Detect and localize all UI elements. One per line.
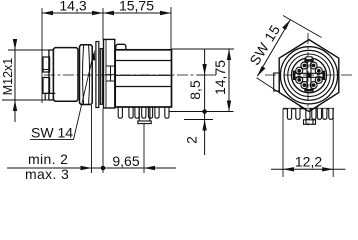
extension line thread bottom (2, 99, 51, 101)
contact pin 2 (310, 62, 317, 69)
mounting plate front view (283, 108, 334, 110)
arrow 14,75 bottom (227, 101, 231, 112)
dimension line M12x1 (14, 44, 16, 122)
arrow below M12 thread (13, 100, 17, 111)
svg-text:2: 2 (184, 136, 200, 144)
arrow 2 bottom (202, 120, 206, 131)
svg-text:min. 2: min. 2 (28, 151, 68, 167)
extension line pin center (143, 124, 145, 173)
solder pin 3 side view (135, 107, 139, 118)
front pin 1 (287, 109, 291, 120)
horizontal centerline front view (265, 74, 352, 76)
svg-text:9,65: 9,65 (112, 153, 139, 169)
hex nut SW14 (80, 45, 93, 105)
front pin 5 (317, 109, 321, 120)
front pin 2 (296, 109, 300, 120)
extension line pin tips (184, 119, 213, 121)
body inner line 2 (115, 74, 171, 76)
hex nut right chamfer arc (89, 45, 90, 104)
svg-text:12,2: 12,2 (295, 154, 322, 170)
extension line seating plane (169, 111, 234, 113)
coding keyway notch (306, 57, 312, 61)
svg-text:SW 14: SW 14 (31, 125, 73, 141)
extension line at x=171 (170, 7, 172, 50)
shield tail foot side view (138, 121, 151, 124)
leader line SW 14 (74, 54, 94, 140)
front contact block upper inner line (43, 69, 50, 71)
panel plate (96, 42, 99, 108)
arrow left of 15,75 (103, 11, 114, 15)
body inner line 3 (115, 86, 171, 88)
hex flat extension lower (257, 78, 280, 93)
outer shell circle (280, 47, 337, 104)
hex bottom vertex over pins (300, 106, 319, 112)
extension line nut rear face (91, 105, 93, 173)
leader arrow SW 14 (92, 50, 95, 61)
middle circle (288, 54, 331, 97)
arrow 12,2 right (322, 167, 333, 171)
svg-text:max. 3: max. 3 (25, 166, 69, 180)
solder pin 5 side view (148, 107, 152, 118)
arrow 9,65 right (144, 166, 155, 170)
anti-rotation tab front view (274, 73, 280, 91)
dimension line 14,75 (228, 49, 230, 112)
contact pin 1 (315, 67, 322, 74)
solder pin 4 side view (142, 107, 146, 118)
dot 8,5 bottom (202, 109, 207, 114)
label SW 14 underline (30, 139, 74, 141)
extension line plate right (332, 109, 334, 177)
centerline left view (44, 74, 216, 76)
dimension line min/max + 9,65 (7, 167, 176, 169)
mounting flange side view (104, 39, 115, 108)
solder pin 1 side view (118, 107, 122, 118)
arrow SW15 lower (257, 66, 265, 76)
contact pin 7 (310, 82, 317, 89)
arrow right of 14,3 (92, 11, 103, 15)
svg-text:8,5: 8,5 (187, 80, 203, 100)
extension line at x=42 (41, 8, 43, 103)
contact pin 8 (315, 76, 322, 83)
extension line body top to 14,75 (172, 48, 234, 50)
shell step circle (284, 50, 334, 100)
arrow 14,75 top (227, 49, 231, 60)
arrow right of 15,75 (160, 11, 171, 15)
contact pin 4 (296, 67, 303, 74)
body top tab (116, 44, 126, 50)
extension line thread top (8, 49, 49, 51)
contact pin 5 (296, 76, 303, 83)
front contact block upper (43, 57, 50, 72)
flange front face inner line (105, 39, 107, 108)
X shield cross (295, 61, 324, 90)
arrow 12,2 left (283, 167, 294, 171)
hex flat extension upper (283, 16, 322, 38)
front contact block lower (43, 78, 50, 94)
dot shared origin (101, 166, 106, 171)
extension line plate left (282, 109, 284, 177)
arrow 8,5 top (202, 64, 206, 75)
svg-text:M12x1: M12x1 (1, 58, 15, 96)
body block (115, 50, 171, 107)
coupling cylinder (53, 48, 78, 102)
hexagon SW15 front view (279, 40, 339, 112)
vertical centerline front view (307, 33, 309, 127)
collar front tube (49, 50, 54, 100)
solder pin 6 side view (155, 107, 159, 118)
contact pin 3 (301, 62, 308, 69)
solder pin 2 side view (129, 107, 133, 118)
svg-text:15,75: 15,75 (119, 0, 154, 14)
collar bottom step (45, 93, 55, 100)
front pin 4 (312, 109, 316, 120)
shield tail side view (139, 107, 150, 121)
flange latch detail (107, 66, 116, 81)
arrow left of 14,3 (42, 11, 53, 15)
arrow panel left (81, 166, 92, 170)
dimension line SW 15 (257, 20, 290, 77)
insert face circle (292, 58, 327, 93)
dimension line 14,3 / 15,75 (42, 12, 171, 14)
svg-text:14,75: 14,75 (212, 60, 228, 95)
hex nut left chamfer arc (83, 45, 84, 104)
contact pin 6 (301, 82, 308, 89)
arrow SW15 upper (282, 20, 290, 30)
front pin 6 (323, 109, 327, 120)
body inner line 1 (115, 60, 171, 62)
front pin 3 (306, 109, 310, 120)
front pin 7 (329, 109, 333, 120)
dimension line 12,2 (271, 168, 346, 170)
shield tail foot front view (304, 120, 316, 125)
axis extension line (198, 74, 216, 76)
dimension line 8,5 and 2 (204, 49, 206, 155)
washer (100, 49, 102, 105)
extension line at x=103 top (102, 8, 104, 40)
solder pin 7 side view (165, 107, 169, 118)
svg-text:14,3: 14,3 (59, 0, 86, 14)
extension line flange front face (102, 109, 104, 174)
svg-text:SW 15: SW 15 (246, 22, 283, 68)
X shield center block (307, 73, 312, 78)
arrow above M12 thread (13, 39, 17, 50)
